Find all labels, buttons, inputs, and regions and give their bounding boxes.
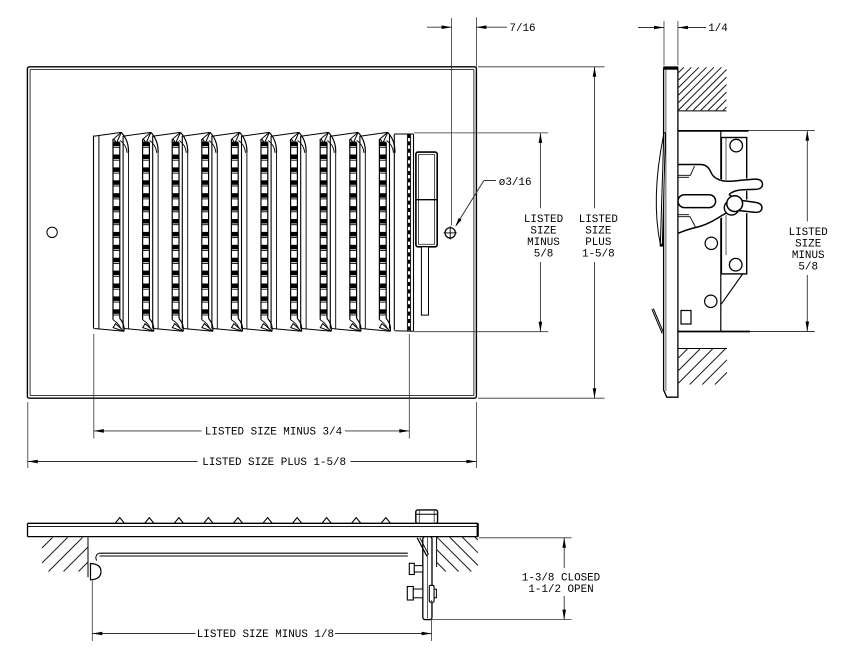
louver blade 9 bbox=[330, 132, 365, 331]
bottom view damper blade open bbox=[100, 552, 408, 554]
side view spring clip upper finger bbox=[726, 179, 763, 195]
louver blade 5 bbox=[212, 132, 247, 331]
bottom view wall left hatching bbox=[42, 538, 53, 549]
side view bracket gusset diagonal bbox=[721, 274, 742, 304]
damper stem front view bbox=[421, 247, 428, 315]
side view spring clip lower finger bbox=[722, 195, 762, 216]
svg-text:SIZE: SIZE bbox=[585, 225, 611, 237]
side view spring clip silhouette bbox=[678, 163, 765, 235]
side view spring clip upper prong bbox=[678, 165, 726, 182]
louver bank top right segment bbox=[394, 133, 413, 135]
dimension listed size minus 1/8 extension lines bbox=[91, 581, 93, 642]
damper knob front view bbox=[416, 152, 437, 247]
dimension listed size plus 1-5/8 (right) extension lines bbox=[478, 66, 605, 68]
svg-text:ø3/16: ø3/16 bbox=[499, 177, 532, 189]
side view damper blade curve bbox=[656, 135, 663, 246]
svg-text:LISTED: LISTED bbox=[579, 214, 618, 226]
louver blade 4 bbox=[182, 132, 217, 331]
louver end strip hidden edge bbox=[406, 134, 408, 331]
hole 3/16 with centre mark bbox=[445, 228, 455, 238]
leader line for 3/16 hole bbox=[456, 181, 484, 225]
dimension 1-3/8 extension lines bbox=[479, 537, 572, 539]
side view faceplate bbox=[664, 69, 678, 397]
svg-text:PLUS: PLUS bbox=[585, 237, 611, 249]
louver blade 6 bbox=[242, 132, 277, 331]
bottom view wall right hatching bbox=[437, 563, 446, 572]
svg-text:1-1/2 OPEN: 1-1/2 OPEN bbox=[528, 584, 593, 596]
dimension 7/16 extension line at plate edge bbox=[475, 17, 477, 66]
dimension listed size minus 5/8 (side) line and arrows bbox=[806, 131, 808, 222]
louver bank left edge bbox=[93, 136, 95, 329]
louver blade 10 bbox=[360, 132, 395, 331]
dimension listed size minus 3/4 extension lines bbox=[93, 334, 95, 439]
side view spring clip palm bottom sweep bbox=[678, 215, 722, 233]
louver bank right blade edge bbox=[389, 135, 391, 329]
svg-text:1-5/8: 1-5/8 bbox=[582, 248, 615, 260]
side view body hole upper bbox=[705, 237, 717, 249]
side view duct body right edge bbox=[720, 131, 722, 332]
svg-text:LISTED: LISTED bbox=[524, 214, 563, 226]
louver blade 8 bbox=[301, 132, 336, 331]
front view faceplate outer border bbox=[27, 67, 476, 398]
bottom view bolt upper bbox=[409, 563, 414, 574]
svg-text:LISTED: LISTED bbox=[789, 227, 828, 239]
dimension listed size minus 5/8 (front) line and arrows bbox=[539, 133, 541, 208]
svg-text:5/8: 5/8 bbox=[534, 248, 554, 260]
dimension 1-3/8 line and arrows bbox=[563, 538, 565, 568]
side view body slot bbox=[681, 311, 691, 325]
bottom view wing nut bbox=[429, 585, 434, 602]
side view spring clip pivot shadow bbox=[724, 200, 739, 215]
svg-text:MINUS: MINUS bbox=[792, 250, 825, 262]
bottom view damper knob bbox=[416, 510, 438, 523]
dimension listed size plus 1-5/8 (bottom) extension lines bbox=[27, 402, 29, 468]
front view faceplate inner border bbox=[30, 69, 474, 395]
bottom view damper bracket bbox=[423, 537, 432, 620]
louver blade 3 bbox=[153, 132, 188, 331]
bottom view faceplate bar bbox=[28, 522, 478, 524]
side view spring clip lower prong gap lines bbox=[678, 217, 696, 228]
svg-text:LISTED SIZE MINUS 1/8: LISTED SIZE MINUS 1/8 bbox=[197, 629, 334, 641]
side view wall hatching top bbox=[678, 110, 727, 112]
svg-text:7/16: 7/16 bbox=[509, 23, 535, 35]
dimension 1/4 extension lines bbox=[663, 21, 665, 65]
dimension 1/4 arrows and text bbox=[638, 27, 664, 29]
side view spring clip pivot pin bbox=[727, 196, 743, 212]
side view mounting bracket bbox=[721, 138, 746, 274]
bottom view spring clip end bbox=[91, 564, 102, 580]
svg-text:LISTED SIZE MINUS 3/4: LISTED SIZE MINUS 3/4 bbox=[205, 427, 342, 439]
louver blade 7 bbox=[271, 132, 306, 331]
svg-text:SIZE: SIZE bbox=[795, 239, 821, 251]
dimension 7/16 extension line at hole centre bbox=[451, 18, 453, 226]
dimension listed size minus 1/8 line and arrows bbox=[92, 633, 195, 635]
svg-text:1/4: 1/4 bbox=[708, 23, 728, 35]
louver bank right boundary bbox=[413, 134, 415, 331]
side view faceplate inner line bbox=[665, 69, 667, 391]
side view faceplate top cap bbox=[664, 67, 678, 69]
side view damper lower tab bbox=[652, 309, 664, 334]
louver blade 1 bbox=[94, 132, 129, 331]
screw hole left bbox=[47, 227, 57, 237]
louver bank bottom right segment bbox=[394, 330, 413, 333]
bottom view louver tips bbox=[115, 518, 124, 524]
side view wall hatching bottom bbox=[678, 348, 727, 350]
side view spring clip middle prong bbox=[678, 195, 716, 208]
side view duct body bottom line bbox=[678, 331, 750, 333]
svg-text:LISTED SIZE PLUS 1-5/8: LISTED SIZE PLUS 1-5/8 bbox=[202, 457, 346, 469]
dimension listed size plus 1-5/8 (bottom) line and arrows bbox=[28, 461, 198, 463]
side view bracket hole bottom bbox=[729, 258, 742, 271]
side view bracket hole top bbox=[730, 139, 743, 152]
side view body hole lower bbox=[705, 295, 717, 307]
svg-text:SIZE: SIZE bbox=[530, 225, 556, 237]
svg-text:1-3/8 CLOSED: 1-3/8 CLOSED bbox=[522, 573, 600, 585]
side view duct body top line bbox=[678, 130, 749, 132]
svg-text:MINUS: MINUS bbox=[527, 237, 560, 249]
louver bank first blade edge bbox=[98, 136, 100, 329]
bottom view bracket diagonals bbox=[417, 538, 427, 557]
side view damper blade edge bbox=[660, 133, 665, 246]
dimension listed size minus 5/8 (front) extension lines bbox=[414, 132, 548, 134]
louver blade 2 bbox=[123, 132, 158, 331]
dimension listed size plus 1-5/8 (right) line and arrows bbox=[594, 67, 596, 208]
bottom view bolt lower bbox=[407, 587, 413, 601]
svg-text:5/8: 5/8 bbox=[798, 262, 818, 274]
dimension listed size minus 3/4 line and arrows bbox=[94, 430, 202, 432]
dimension 7/16 arrows and text bbox=[427, 26, 452, 28]
